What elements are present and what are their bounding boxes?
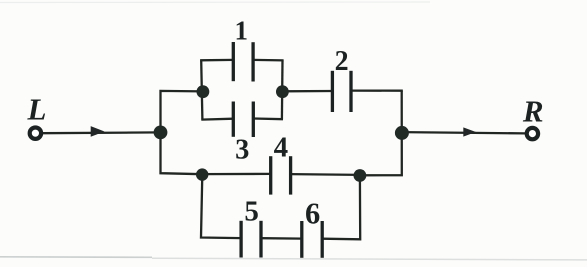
svg-text:4: 4 bbox=[274, 132, 289, 164]
svg-text:3: 3 bbox=[235, 135, 249, 166]
svg-text:6: 6 bbox=[305, 197, 320, 231]
svg-text:R: R bbox=[522, 94, 544, 129]
svg-text:1: 1 bbox=[235, 16, 249, 46]
svg-text:5: 5 bbox=[244, 196, 259, 228]
svg-text:L: L bbox=[27, 92, 47, 127]
svg-text:2: 2 bbox=[335, 46, 349, 77]
